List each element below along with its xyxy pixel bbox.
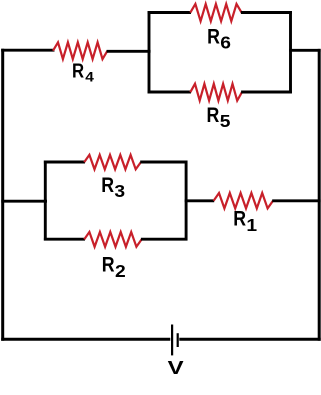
svg-text:R: R [101,173,114,197]
svg-text:2: 2 [115,261,126,281]
svg-text:R: R [72,59,85,82]
svg-text:R: R [207,104,220,128]
svg-text:3: 3 [114,181,125,201]
svg-text:R: R [207,25,220,49]
svg-text:4: 4 [85,70,94,85]
svg-text:1: 1 [246,215,257,235]
svg-text:5: 5 [220,111,231,131]
svg-text:6: 6 [220,32,231,52]
svg-text:R: R [102,253,115,277]
svg-text:V: V [168,358,184,378]
svg-text:R: R [233,207,246,231]
